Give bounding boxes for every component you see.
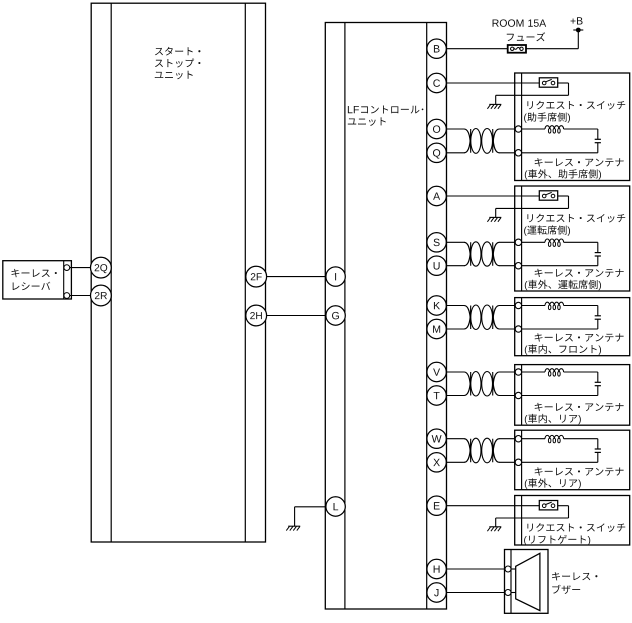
pin K [427,296,446,315]
wire receiver to pin 2R [70,295,91,297]
twisted pair V-T [446,372,515,397]
pin T [427,386,446,405]
pin 2F [246,266,267,287]
wire pin E to request switch [446,505,539,507]
buzzer terminal pin (H) [505,566,511,572]
fuse ROOM 15A [508,45,526,53]
label LF control unit [348,105,424,125]
pin 2Q [91,257,112,278]
pin 2R [91,285,112,306]
wire pin J to buzzer [446,592,505,594]
label keyless receiver [11,269,56,290]
pin M [427,319,446,338]
wire pin 2H to pin G [267,315,326,317]
pin B [427,39,446,58]
pin O [427,119,446,138]
box keyless antenna (outside rear) [515,430,630,490]
pin C [427,73,446,92]
request switch (liftgate) [539,501,557,510]
twisted pair O-Q [446,129,515,154]
keyless antenna (inside rear) [515,369,601,399]
label keyless antenna (inside rear) [525,403,624,425]
wire fuse to +B [526,30,578,49]
label ROOM 15A fuse [493,19,547,41]
label keyless antenna (inside front) [525,333,624,355]
twisted pair K-M [446,305,515,330]
LF control unit box [325,23,446,610]
label keyless antenna (outside passenger side) [525,158,624,180]
wire request switch to ground (liftgate) [496,506,569,518]
ground (request switch passenger side) [487,95,501,109]
twisted pair S-U [446,242,515,266]
box keyless antenna (inside front) [515,298,630,356]
pin S [427,233,446,252]
box request switch (liftgate) [515,496,630,546]
keyless antenna (inside front) [515,302,601,332]
ground (LF control unit) [286,507,300,531]
wire request switch to ground (driver side) [496,196,569,208]
wire pin 2F to pin I [267,276,326,278]
pin X [427,453,446,472]
pin I [326,267,345,286]
pin A [427,186,446,205]
receiver terminal pin (to 2R) [64,293,70,299]
label request switch (passenger side) [524,101,625,123]
label keyless antenna (outside driver side) [525,269,624,291]
wire pin B to fuse [446,48,507,50]
pin H [427,559,446,578]
label keyless antenna (outside rear) [525,467,624,489]
keyless antenna (outside driver side) [515,239,601,269]
pin L [326,497,345,516]
label request switch (driver side) [524,214,625,236]
wire request switch to ground [496,83,569,95]
receiver terminal pin (to 2Q) [64,265,70,271]
label request switch (liftgate) [524,523,625,545]
label keyless buzzer [552,572,597,594]
pin G [326,306,345,325]
wire pin C to request switch [446,82,539,84]
keyless receiver box [3,261,72,299]
keyless buzzer speaker [511,553,540,610]
start-stop unit box [91,3,265,542]
+B supply [571,17,584,32]
pin J [427,583,446,602]
pin V [427,362,446,381]
wire pin H to buzzer [446,568,505,570]
pin 2H [246,305,267,326]
ground (request switch driver side) [487,208,501,221]
label start-stop unit [155,47,201,79]
buzzer terminal pin (J) [505,590,511,596]
keyless buzzer box [505,550,549,614]
request switch (driver side) [539,191,557,200]
wire pin L to ground [295,506,326,508]
wire receiver to pin 2Q [70,267,91,269]
pin U [427,256,446,275]
keyless antenna (outside rear) [515,435,601,465]
pin E [427,496,446,515]
pin Q [427,143,446,162]
wire pin A to request switch [446,195,539,197]
box request switch / antenna (driver side) [515,186,630,291]
box request switch / antenna (passenger side) [515,73,630,181]
request switch (passenger side) [539,78,557,87]
twisted pair W-X [446,438,515,463]
box keyless antenna (inside rear) [515,365,630,426]
pin W [427,429,446,448]
keyless antenna (outside passenger side) [515,126,601,156]
ground (request switch liftgate) [487,518,501,531]
